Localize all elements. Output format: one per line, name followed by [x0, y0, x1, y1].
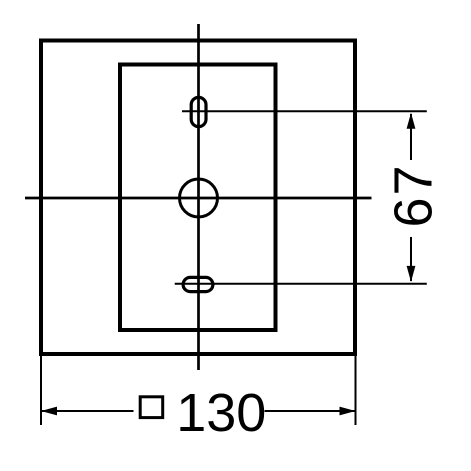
vertical centerline	[197, 24, 200, 370]
horizontal centerline	[25, 197, 372, 200]
top extension line (through top slot)	[182, 110, 427, 112]
svg-text:67: 67	[384, 163, 444, 227]
left extension line (below square)	[40, 354, 42, 425]
arrowhead up	[407, 113, 416, 129]
dimension line 67 upper segment	[410, 114, 412, 160]
dimension line 130 right segment	[265, 410, 355, 412]
square symbol (square-section indicator)	[140, 397, 163, 418]
svg-text:130: 130	[176, 383, 266, 443]
arrowhead down	[407, 266, 416, 282]
inner rectangle (body outline)	[120, 65, 276, 331]
center circle (wiring hole)	[180, 179, 218, 217]
arrowhead left	[41, 407, 57, 416]
bottom slot (horizontal oblong mounting hole)	[183, 277, 213, 291]
dimension line 67 lower segment	[410, 237, 412, 281]
arrowhead right	[340, 407, 356, 416]
bottom extension line (through bottom slot)	[175, 283, 427, 285]
right extension line (below square)	[355, 354, 357, 425]
top slot (vertical oblong mounting hole)	[191, 97, 206, 126]
outer square (plate outline 130x130)	[41, 41, 355, 355]
dimension line 130 left segment	[42, 410, 134, 412]
